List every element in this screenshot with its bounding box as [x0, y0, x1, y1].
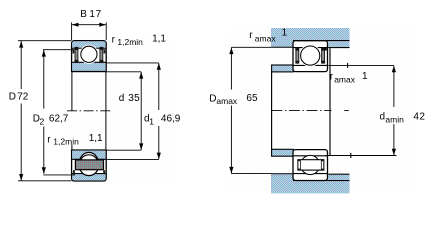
- cage rect bottom section right figure: [298, 160, 324, 170]
- shield left (2Z) top section: [75, 49, 78, 60]
- svg-text:1: 1: [149, 117, 154, 127]
- housing left shoulder region bottom (blue): [271, 174, 293, 181]
- housing bottom strip (blue): [271, 181, 350, 193]
- svg-text:1,2min: 1,2min: [117, 37, 143, 47]
- svg-text:d: d: [119, 93, 125, 104]
- dimension line Da with arrows: [230, 48, 232, 90]
- shield right (2Z) top section: [100, 49, 103, 60]
- housing bore line top: [293, 40, 350, 42]
- svg-text:62,7: 62,7: [49, 114, 69, 125]
- housing left shoulder region top (blue): [271, 40, 293, 47]
- ra extension line middle with tick: [328, 64, 394, 66]
- inner ring bottom shoulder line: [72, 158, 106, 160]
- inner ring shoulder line top: [293, 64, 328, 66]
- shield right top section right figure: [322, 50, 325, 61]
- svg-text:amax: amax: [216, 96, 238, 106]
- bottom section body: [72, 150, 107, 181]
- housing shoulder line top right: [328, 47, 349, 49]
- inner ring shoulder line: [72, 61, 106, 63]
- dimension line B with arrows: [72, 24, 107, 26]
- groove arc lower (ball shadow) bottom section: [79, 155, 99, 176]
- svg-text:2: 2: [40, 117, 45, 127]
- dimension D2 extension lines: [43, 49, 74, 51]
- svg-text:17: 17: [89, 9, 102, 20]
- outer ring top band (blue): [72, 41, 105, 47]
- svg-text:r: r: [47, 134, 51, 145]
- faint hatch background left figure: [62, 36, 174, 186]
- svg-text:amax: amax: [255, 34, 277, 44]
- svg-text:1: 1: [282, 28, 288, 39]
- svg-text:D: D: [9, 91, 16, 102]
- svg-text:35: 35: [128, 93, 140, 104]
- bearing bottom section body right figure: [293, 150, 328, 181]
- dimension d extension lines: [106, 71, 141, 73]
- dimension D extension lines: [18, 40, 72, 42]
- ball bottom section right figure: [301, 155, 320, 174]
- svg-text:d: d: [380, 111, 386, 122]
- outer ring groove line: [72, 47, 106, 49]
- bearing top section body right figure: [293, 41, 328, 72]
- ball top section: [81, 46, 97, 62]
- inner ring shoulder line bottom: [293, 155, 328, 157]
- svg-text:B: B: [80, 9, 87, 20]
- svg-text:1,1: 1,1: [89, 133, 103, 144]
- Da extension line top: [231, 46, 271, 48]
- svg-text:D: D: [209, 94, 216, 105]
- svg-text:1: 1: [362, 71, 368, 82]
- Da extension line bottom: [231, 173, 271, 175]
- dimension line da with arrows: [393, 66, 395, 107]
- svg-text:46,9: 46,9: [161, 114, 181, 125]
- svg-text:65: 65: [246, 93, 258, 104]
- raceway groove top section right figure: [299, 45, 321, 67]
- cage thick side bars: [298, 159, 301, 170]
- dimension line d1 vertical with arrows: [158, 63, 160, 110]
- shaft left cut edge: [271, 72, 273, 149]
- chamfer corner marks top section: [73, 49, 75, 53]
- housing shoulder block bottom right (blue): [328, 175, 349, 181]
- housing shoulder block top right (blue): [328, 41, 349, 47]
- da extension line bottom with tick: [326, 155, 397, 157]
- svg-text:amax: amax: [334, 74, 356, 84]
- dimension line d vertical with arrows: [140, 72, 142, 150]
- dimension line D vertical with arrows: [20, 41, 22, 89]
- svg-text:42: 42: [413, 111, 425, 122]
- axis centerline left figure: [67, 110, 111, 112]
- svg-text:72: 72: [17, 91, 29, 102]
- housing shoulder line bottom right: [328, 173, 349, 175]
- housing shoulder line bottom left: [271, 173, 293, 175]
- groove arc upper (ball shadow) bottom section: [79, 152, 99, 175]
- housing top strip (blue): [271, 28, 350, 40]
- inner ring top band (blue): [72, 62, 105, 71]
- ball top section right figure: [301, 46, 320, 65]
- outer ring groove line top: [293, 47, 328, 49]
- svg-text:1,2min: 1,2min: [53, 137, 79, 147]
- outer ring bottom groove line: [72, 173, 106, 175]
- svg-text:amin: amin: [385, 114, 404, 124]
- housing bore line bottom: [293, 180, 350, 182]
- dimension B extension lines: [71, 22, 73, 40]
- fillet corner mark housing shoulder right: [325, 48, 327, 50]
- bore line top section: [72, 71, 107, 73]
- shield stubs bottom section: [73, 170, 75, 174]
- top section body (outer+inner ring): [72, 41, 107, 72]
- shaft shoulder strip bottom left (blue): [272, 149, 294, 156]
- inner ring bottom band (blue): [72, 151, 105, 160]
- outer ring groove line bottom: [293, 173, 328, 175]
- shaft end face: [329, 48, 331, 155]
- housing shoulder line top left: [271, 46, 293, 48]
- raceway groove top section: [79, 45, 98, 64]
- axis centerline right figure: [271, 110, 331, 112]
- outer ring bottom band (blue): [72, 174, 105, 181]
- dimension d1 extension lines: [106, 62, 159, 64]
- cage rectangle (hatched) bottom section: [75, 160, 103, 170]
- shield left top section right figure: [296, 50, 299, 61]
- svg-text:1,1: 1,1: [152, 34, 166, 45]
- faint hatch background right figure: [228, 26, 418, 194]
- shaft shoulder strip top left (blue): [272, 65, 294, 72]
- dimension line D2 vertical with arrows: [43, 50, 45, 109]
- bearing side face lines through bore region: [71, 72, 73, 111]
